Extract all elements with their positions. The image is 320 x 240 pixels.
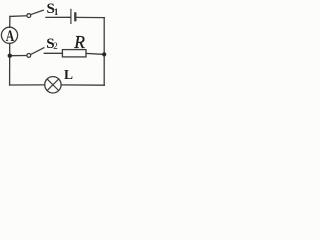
switch S1 pivot circle xyxy=(27,14,31,18)
svg-text:1: 1 xyxy=(54,7,59,17)
switch S2 pivot circle xyxy=(27,54,31,58)
node junction right xyxy=(102,52,106,56)
lamp X cross xyxy=(47,79,58,90)
battery long plate (+) xyxy=(70,9,72,23)
switch S1 blade xyxy=(31,10,43,14)
node junction left xyxy=(8,54,12,58)
wire left vertical upper (corner to ammeter) xyxy=(9,16,11,27)
wire middle-left (junction to S2) xyxy=(10,55,27,57)
wire bottom-left (lamp to corner) xyxy=(10,84,45,86)
resistor R box xyxy=(62,50,86,57)
svg-text:R: R xyxy=(73,32,85,52)
svg-text:2: 2 xyxy=(53,41,58,51)
svg-text:L: L xyxy=(64,67,73,82)
wire top-middle (S1 to battery) xyxy=(46,16,70,18)
wire bottom-right (corner to lamp) xyxy=(61,84,104,86)
lamp L circle xyxy=(45,77,61,93)
svg-text:A: A xyxy=(6,28,15,45)
wire middle (S2 to resistor) xyxy=(44,52,62,54)
wire middle-right (resistor to junction) xyxy=(86,53,104,54)
battery short plate (-) xyxy=(74,13,76,20)
wire left vertical lower (ammeter to bottom corner) xyxy=(9,43,11,85)
wire top-left horizontal xyxy=(10,15,27,18)
switch S2 blade xyxy=(31,48,44,55)
ammeter A circle xyxy=(1,27,17,43)
wire right vertical xyxy=(103,18,105,86)
wire top-right (battery to corner) xyxy=(76,16,104,18)
